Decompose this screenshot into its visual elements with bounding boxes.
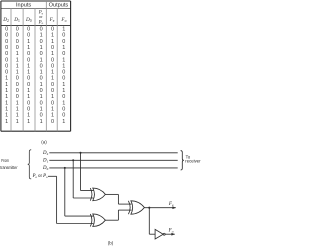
svg-text:1: 1 <box>16 100 19 106</box>
svg-text:1: 1 <box>27 45 30 51</box>
svg-text:0: 0 <box>27 82 30 88</box>
svg-text:1: 1 <box>62 119 65 125</box>
svg-text:1: 1 <box>40 45 43 51</box>
svg-text:1: 1 <box>16 107 19 113</box>
svg-text:1: 1 <box>5 113 8 119</box>
svg-text:0: 0 <box>51 63 54 69</box>
svg-text:1: 1 <box>40 82 43 88</box>
svg-text:1: 1 <box>40 107 43 113</box>
svg-text:0: 0 <box>5 51 8 57</box>
svg-text:0: 0 <box>5 33 8 39</box>
svg-text:1: 1 <box>62 100 65 106</box>
svg-text:0: 0 <box>5 26 8 32</box>
svg-text:1: 1 <box>27 119 30 125</box>
svg-text:1: 1 <box>16 113 19 119</box>
svg-text:0: 0 <box>5 63 8 69</box>
svg-text:0: 0 <box>40 100 43 106</box>
svg-text:1: 1 <box>51 113 54 119</box>
svg-text:0: 0 <box>16 26 19 32</box>
svg-text:0: 0 <box>51 100 54 106</box>
svg-text:1: 1 <box>5 107 8 113</box>
svg-text:1: 1 <box>51 39 54 45</box>
svg-text:1: 1 <box>62 26 65 32</box>
svg-text:0: 0 <box>62 94 65 100</box>
svg-text:1: 1 <box>62 57 65 63</box>
svg-text:1: 1 <box>62 45 65 51</box>
svg-text:1: 1 <box>40 70 43 76</box>
svg-text:0: 0 <box>27 26 30 32</box>
svg-text:0: 0 <box>51 45 54 51</box>
svg-text:1: 1 <box>27 94 30 100</box>
svg-text:1: 1 <box>40 57 43 63</box>
svg-text:receiver: receiver <box>185 158 201 163</box>
svg-text:0: 0 <box>40 113 43 119</box>
svg-text:0: 0 <box>27 107 30 113</box>
svg-text:D1: D1 <box>42 159 49 164</box>
svg-text:1: 1 <box>40 94 43 100</box>
svg-text:0: 0 <box>5 45 8 51</box>
svg-text:0: 0 <box>62 76 65 82</box>
svg-text:1: 1 <box>51 76 54 82</box>
svg-text:1: 1 <box>27 39 30 45</box>
svg-text:(a): (a) <box>41 139 47 144</box>
svg-text:Pe or Po: Pe or Po <box>32 174 48 179</box>
svg-text:Inputs: Inputs <box>16 2 31 8</box>
svg-text:0: 0 <box>16 45 19 51</box>
svg-text:1: 1 <box>40 33 43 39</box>
svg-text:transmitter: transmitter <box>0 165 18 170</box>
svg-text:1: 1 <box>27 70 30 76</box>
svg-text:1: 1 <box>16 70 19 76</box>
svg-text:0: 0 <box>62 39 65 45</box>
svg-text:0: 0 <box>5 70 8 76</box>
svg-text:1: 1 <box>51 51 54 57</box>
svg-text:0: 0 <box>16 94 19 100</box>
svg-text:From: From <box>1 158 9 163</box>
svg-text:1: 1 <box>40 119 43 125</box>
svg-text:1: 1 <box>16 119 19 125</box>
svg-text:0: 0 <box>62 33 65 39</box>
svg-text:0: 0 <box>40 39 43 45</box>
svg-text:0: 0 <box>62 51 65 57</box>
svg-text:1: 1 <box>16 63 19 69</box>
svg-text:0: 0 <box>40 76 43 82</box>
svg-text:1: 1 <box>5 119 8 125</box>
svg-text:0: 0 <box>51 82 54 88</box>
svg-text:1: 1 <box>5 100 8 106</box>
svg-text:0: 0 <box>16 33 19 39</box>
svg-text:or: or <box>39 14 43 19</box>
svg-text:1: 1 <box>51 33 54 39</box>
svg-text:Po: Po <box>38 20 44 25</box>
svg-text:1: 1 <box>51 70 54 76</box>
svg-text:0: 0 <box>27 76 30 82</box>
svg-text:0: 0 <box>27 100 30 106</box>
svg-text:(b): (b) <box>108 241 114 246</box>
svg-text:0: 0 <box>40 51 43 57</box>
svg-text:0: 0 <box>62 70 65 76</box>
svg-text:0: 0 <box>51 26 54 32</box>
svg-text:1: 1 <box>5 88 8 94</box>
svg-text:0: 0 <box>27 33 30 39</box>
svg-text:1: 1 <box>51 94 54 100</box>
svg-text:1: 1 <box>27 63 30 69</box>
svg-text:1: 1 <box>5 82 8 88</box>
svg-text:0: 0 <box>5 57 8 63</box>
svg-text:D0: D0 <box>42 166 49 171</box>
svg-text:0: 0 <box>16 76 19 82</box>
svg-text:1: 1 <box>62 88 65 94</box>
svg-text:0: 0 <box>40 63 43 69</box>
svg-text:0: 0 <box>40 88 43 94</box>
svg-text:0: 0 <box>62 107 65 113</box>
svg-text:1: 1 <box>16 57 19 63</box>
svg-text:1: 1 <box>27 88 30 94</box>
svg-text:0: 0 <box>40 26 43 32</box>
svg-text:1: 1 <box>16 51 19 57</box>
svg-text:0: 0 <box>51 88 54 94</box>
svg-text:0: 0 <box>51 57 54 63</box>
svg-text:1: 1 <box>62 63 65 69</box>
svg-text:1: 1 <box>51 107 54 113</box>
svg-text:1: 1 <box>27 113 30 119</box>
svg-text:1: 1 <box>5 76 8 82</box>
svg-text:D2: D2 <box>42 151 49 156</box>
svg-text:Outputs: Outputs <box>49 2 69 8</box>
svg-text:0: 0 <box>51 119 54 125</box>
svg-text:1: 1 <box>62 82 65 88</box>
svg-text:0: 0 <box>27 51 30 57</box>
svg-text:1: 1 <box>5 94 8 100</box>
svg-text:0: 0 <box>16 82 19 88</box>
svg-text:0: 0 <box>16 39 19 45</box>
svg-text:0: 0 <box>62 113 65 119</box>
svg-text:0: 0 <box>16 88 19 94</box>
svg-text:0: 0 <box>27 57 30 63</box>
svg-text:0: 0 <box>5 39 8 45</box>
